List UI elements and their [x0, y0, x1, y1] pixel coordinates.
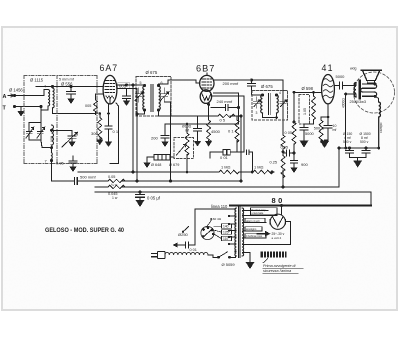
- svg-text:Ø 648: Ø 648: [151, 163, 161, 167]
- transformer ground: [244, 253, 251, 263]
- svg-text:Ø 675: Ø 675: [146, 70, 158, 75]
- wire cathode down: [208, 104, 210, 116]
- svg-text:sicurezza l'anima: sicurezza l'anima: [263, 269, 291, 273]
- cap 0.05uf line filter: [136, 192, 145, 200]
- power transformer core: [238, 207, 240, 258]
- output transformer secondary turns: [363, 84, 375, 96]
- variable capacitor section 2: [37, 127, 45, 138]
- tap wires: [206, 219, 222, 239]
- winding label strip: [251, 208, 278, 215]
- AVC resistor line: [78, 171, 274, 173]
- diode wire 2: [212, 96, 253, 172]
- tube 6A7 envelope: [103, 75, 117, 104]
- cathode resistor 500: [319, 120, 323, 142]
- pot bottom to bus: [186, 156, 188, 172]
- tube 6A7 grids: [105, 81, 115, 93]
- antenna coil primary: [48, 90, 50, 107]
- svg-text:4 bobina rossi: 4 bobina rossi: [246, 234, 263, 238]
- tube 6A7 cathode: [106, 96, 114, 104]
- resistor 300: [98, 114, 102, 140]
- ground at T: [20, 107, 22, 112]
- svg-text:linea 110: linea 110: [211, 204, 228, 209]
- svg-text:100: 100: [50, 136, 54, 142]
- wire IF1 trimmer to volume feed: [164, 102, 170, 181]
- resistor 4500: [207, 116, 211, 142]
- wire 80 to HT line: [280, 206, 282, 215]
- tuning gang loop: [29, 122, 52, 147]
- cap 240mmf: [211, 105, 239, 111]
- IF2 secondary bottom wire: [263, 113, 277, 118]
- resistor 0.1 plate load: [235, 116, 244, 152]
- B plus line: [339, 147, 379, 149]
- cap 0.01 coupling: [210, 149, 237, 158]
- rectifier filament: [273, 217, 283, 227]
- IF2 trimmer left: [253, 97, 260, 108]
- wire primary bottom: [41, 106, 48, 110]
- speaker cone: [361, 70, 382, 80]
- resistor 0.05 diode load: [281, 135, 285, 156]
- svg-text:avvolgim: avvolgim: [246, 227, 256, 231]
- rectifier plates: [270, 220, 285, 225]
- selector lever: [203, 229, 213, 238]
- svg-text:0 1: 0 1: [113, 129, 119, 134]
- wire secondary bottom to grid return: [53, 94, 104, 114]
- oscillator tickler coil: [51, 148, 54, 159]
- antenna coil secondary: [53, 88, 55, 108]
- top grid bus wire: [36, 86, 103, 88]
- svg-text:500 v: 500 v: [343, 140, 352, 144]
- svg-text:3: 3: [256, 111, 258, 115]
- caps common ground: [350, 158, 367, 161]
- svg-text:1 MΩ: 1 MΩ: [254, 165, 263, 170]
- resistor 1M first: [219, 170, 239, 174]
- anode feed wire down: [117, 89, 137, 181]
- secondary tap wires: [243, 211, 291, 253]
- winding tap labels: [245, 218, 265, 222]
- electrolytic cap 1: [346, 148, 354, 158]
- IF1 core: [151, 85, 153, 112]
- primary tap wires: [229, 216, 236, 252]
- selector switch circle: [201, 226, 214, 239]
- svg-text:4500: 4500: [211, 129, 221, 134]
- IF2 trimmer right: [280, 97, 287, 108]
- svg-text:0 05: 0 05: [281, 145, 289, 150]
- svg-text:200 mmf: 200 mmf: [223, 81, 239, 86]
- svg-text:mf: mf: [333, 128, 337, 132]
- tap box 110: [222, 236, 232, 241]
- IF2 primary coil: [261, 95, 263, 113]
- AVC bus wire: [77, 180, 241, 182]
- svg-text:0 01: 0 01: [220, 155, 229, 160]
- svg-text:6A7: 6A7: [100, 63, 119, 73]
- cap 500 to ground: [290, 160, 297, 167]
- output transformer core: [359, 81, 361, 99]
- svg-text:Ø 1456: Ø 1456: [9, 88, 23, 93]
- resistor 0.05 af grid leak: [292, 122, 296, 160]
- grid wire: [294, 91, 322, 93]
- svg-text:140: 140: [223, 225, 229, 229]
- svg-text:Ø 675: Ø 675: [261, 84, 273, 89]
- IF1 trimmer left: [135, 88, 143, 102]
- grid resistor: [304, 92, 316, 127]
- rectifier plate loop: [286, 222, 291, 245]
- cathode branch wire: [110, 103, 119, 164]
- rectifier 80 envelope: [270, 214, 285, 229]
- transformer secondary winding: [242, 208, 244, 256]
- svg-text:240 mmf: 240 mmf: [217, 99, 233, 104]
- svg-text:Ø 598: Ø 598: [302, 86, 314, 91]
- svg-text:500 mmf: 500 mmf: [80, 175, 96, 180]
- mains plug: [158, 251, 166, 258]
- tone cap dashed box: [299, 95, 310, 125]
- resistor 005 osc grid leak: [94, 100, 98, 115]
- capacitor 556 to ground: [67, 87, 76, 99]
- tube 6B7 envelope: [200, 75, 214, 91]
- svg-text:5000: 5000: [336, 74, 346, 79]
- svg-text:0 05 µf: 0 05 µf: [147, 196, 161, 201]
- IF1 shield box dashed: [136, 77, 171, 117]
- IF2 core: [269, 94, 271, 115]
- svg-text:0 01: 0 01: [190, 248, 197, 252]
- IF2 secondary coil: [277, 95, 279, 113]
- svg-text:universale: universale: [252, 211, 264, 215]
- cap 0.1 cathode bypass: [105, 104, 112, 142]
- svg-text:300: 300: [91, 131, 98, 136]
- AVC line wires: [165, 123, 239, 125]
- pot wiper arrow: [177, 144, 187, 155]
- svg-text:0 5: 0 5: [220, 118, 226, 123]
- svg-text:wdg: wdg: [350, 67, 356, 71]
- mechanical gang link (dash-dot): [24, 76, 97, 164]
- mains cord: [165, 252, 208, 255]
- chassis bottom line: [95, 192, 371, 206]
- svg-text:1.05: 1.05: [303, 108, 307, 115]
- svg-text:005: 005: [85, 104, 91, 108]
- resistor 0.5 inline: [218, 114, 235, 117]
- svg-text:GELOSO - MOD. SUPER G. 40: GELOSO - MOD. SUPER G. 40: [45, 227, 124, 234]
- wire IF1 secondary to 6B7 grid: [159, 80, 200, 86]
- wire IF1 secondary bottom to screen bus: [158, 110, 160, 116]
- transformer primary winding: [235, 208, 236, 256]
- cap phi10 electrolytic: [194, 116, 202, 141]
- svg-text:5: 5: [140, 81, 142, 85]
- svg-text:altern 4 volt: altern 4 volt: [246, 219, 260, 223]
- svg-text:160 4Ω: 160 4Ω: [211, 217, 222, 221]
- mains selector frame wire: [195, 209, 236, 245]
- cap 200mmf coupling: [248, 80, 263, 95]
- svg-text:campo: campo: [379, 122, 383, 133]
- electrolytic cap 2: [362, 148, 370, 158]
- plate wire to right: [214, 80, 283, 135]
- svg-text:6B7: 6B7: [196, 64, 215, 74]
- electrostatic shield box: [261, 252, 287, 258]
- oscillator coil 100: [52, 125, 54, 148]
- B minus drop wire: [338, 148, 340, 187]
- svg-text:2500/3w3: 2500/3w3: [350, 100, 366, 104]
- svg-text:0.25: 0.25: [270, 160, 278, 165]
- secondary to voice coil wires: [356, 83, 379, 103]
- power switch: [208, 252, 235, 257]
- svg-text:Prima avvolgente di: Prima avvolgente di: [263, 264, 296, 268]
- wire A: [15, 90, 49, 96]
- svg-text:500 v: 500 v: [360, 140, 369, 144]
- primary bottom wire: [346, 93, 356, 95]
- svg-text:41: 41: [322, 63, 334, 73]
- speaker dashed circle: [354, 72, 395, 113]
- padder trimmer: [52, 130, 78, 147]
- screen feed wire down: [132, 85, 134, 172]
- field coil campo: [379, 102, 381, 148]
- cap 005 to ground: [123, 89, 131, 101]
- fuse lever: [183, 227, 189, 232]
- svg-text:1 MΩ: 1 MΩ: [221, 165, 230, 170]
- svg-text:200: 200: [151, 136, 158, 141]
- speaker magnet: [367, 81, 374, 84]
- svg-text:4000Ω: 4000Ω: [341, 98, 345, 108]
- IF1 secondary coil: [159, 86, 161, 110]
- tap box 140: [222, 224, 232, 229]
- tube 6B7 grids: [202, 79, 212, 88]
- IF2 shield box dashed: [252, 91, 288, 121]
- tube 6B7 diode filament: [202, 94, 211, 101]
- label 005: [118, 83, 130, 89]
- cap 200 to ground: [161, 124, 169, 142]
- svg-text:5000: 5000: [305, 131, 314, 136]
- screen bus wire: [159, 115, 241, 117]
- wire plate to IF1: [117, 84, 145, 86]
- series capacitor 500mmf on bus: [75, 178, 78, 185]
- B plus feed wire: [345, 94, 347, 148]
- resistor 1M second: [253, 170, 273, 174]
- svg-text:A: A: [3, 94, 7, 100]
- cap 5000 to ground: [300, 127, 308, 140]
- IF1 trimmer right: [161, 88, 169, 102]
- svg-text:Ø 5059: Ø 5059: [222, 262, 236, 267]
- resistor phi648 boxed: [154, 155, 170, 161]
- wire det to grid: [293, 92, 295, 122]
- tube 41 grids: [323, 79, 332, 98]
- svg-text:125: 125: [223, 231, 229, 235]
- wire T: [15, 106, 42, 108]
- line cap 0.01 with arrow: [177, 242, 195, 248]
- svg-text:0 05: 0 05: [285, 130, 293, 135]
- volume pot resistor: [185, 124, 189, 156]
- HT return line: [230, 205, 371, 207]
- svg-text:900: 900: [301, 162, 308, 167]
- resistor 0.045 1w inline: [108, 185, 125, 188]
- volume pot dashed box: [174, 138, 194, 159]
- svg-text:110: 110: [223, 237, 228, 241]
- wire gang to T line: [40, 110, 42, 122]
- svg-text:4: 4: [279, 91, 281, 95]
- output transformer primary: [354, 83, 356, 97]
- svg-text:0 1: 0 1: [228, 129, 234, 134]
- wire IF1 primary bottom down: [137, 110, 145, 114]
- IF1 primary coil: [143, 86, 145, 110]
- variable capacitor section 1: [26, 127, 34, 138]
- HT tap arrow: [257, 233, 266, 235]
- svg-text:80: 80: [272, 196, 285, 205]
- svg-text:a volt 4: a volt 4: [272, 236, 282, 240]
- cathode bypass electrolytic: [324, 117, 332, 141]
- tap box 125: [222, 230, 232, 235]
- diode wire 1: [214, 93, 239, 124]
- lower bus wire: [95, 186, 339, 188]
- wire pin7 down to AVC bus: [52, 161, 75, 182]
- cathode wires: [321, 104, 328, 120]
- wire plate top: [206, 73, 208, 75]
- svg-text:Ø 1115: Ø 1115: [30, 78, 44, 83]
- svg-text:0.05: 0.05: [56, 161, 65, 166]
- svg-text:Ø 679: Ø 679: [169, 163, 179, 167]
- box wire right: [240, 116, 242, 181]
- resistor 0.05 quarter w inline: [108, 179, 125, 182]
- tube 41 envelope: [322, 75, 335, 104]
- svg-text:1 w: 1 w: [112, 196, 118, 200]
- svg-text:0.05: 0.05: [108, 175, 115, 179]
- shield leader line: [263, 259, 268, 264]
